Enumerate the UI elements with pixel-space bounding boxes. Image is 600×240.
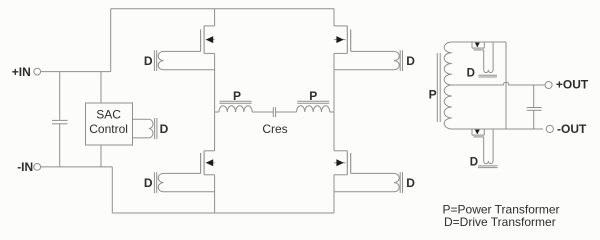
wire right primary stub [330,111,334,113]
legend line D=Drive Transformer [444,215,556,229]
node -IN terminal [34,164,41,171]
wire SR2 drive return drop [492,129,494,161]
wire input cap bottom lead [59,124,61,167]
power transformer left primary winding P [219,106,252,112]
svg-text:Control: Control [89,122,128,136]
node -IN terminal label [17,160,33,174]
wire rectifier output bus [505,42,507,129]
power transformer secondary label P [429,87,437,101]
drive transformer core (Q4) [400,172,402,193]
drive transformer core (Q3) [154,172,156,193]
transistor Q2 [334,26,351,54]
svg-text:D: D [144,54,153,68]
power transformer left primary core [220,101,252,103]
svg-text:+OUT: +OUT [556,78,589,92]
power transformer right primary label P [309,89,317,103]
drive transformer label D (Q2) [406,54,415,68]
svg-text:D: D [160,122,169,136]
wire -IN drop to bottom rail [111,167,113,213]
wire Q1 drive return lead [164,69,215,71]
svg-text:D: D [470,156,478,168]
wire SR1 drive return drop [492,42,494,70]
SAC control box U1 [86,103,133,145]
power transformer right primary winding P [297,106,330,112]
wire center tap to +OUT (hop over bus) [452,82,545,85]
drive transformer winding (SR2) [484,161,493,164]
svg-text:-IN: -IN [17,160,33,174]
wire output cap bottom lead [533,110,535,129]
transistor Q4 [334,151,351,175]
wire secondary bottom lead [452,128,543,130]
svg-text:Cres: Cres [262,122,287,136]
wire +IN horizontal [41,71,111,73]
wire SAC control bottom lead [100,145,102,167]
transistor Q1 [201,26,215,54]
svg-text:D: D [467,67,475,79]
power transformer secondary core [437,53,440,122]
drive transformer winding (SR1) [484,70,493,73]
wire Q4 drive return lead [334,191,394,193]
wire input cap top lead [59,72,61,121]
wire top rail [111,8,334,10]
power transformer secondary winding [444,42,452,129]
svg-text:P: P [429,87,437,101]
wire +IN riser to top rail [110,9,112,72]
power transformer left primary label P [233,89,241,103]
capacitor Cout [527,108,542,111]
drive transformer core (Q2) [400,50,402,71]
transistor SR1 (top rectifier) [472,42,484,50]
drive transformer primary winding (SAC) [149,119,153,138]
drive transformer primary core [155,118,157,139]
wire secondary top lead [452,41,506,43]
wire bottom rail [112,212,334,214]
drive transformer label D (SR1) [467,67,475,79]
svg-text:-OUT: -OUT [557,122,587,136]
wire -IN horizontal [41,166,113,168]
svg-text:+IN: +IN [12,65,31,79]
legend line P=Power Transformer [443,202,560,216]
svg-text:P: P [233,89,241,103]
node -OUT terminal label [557,122,587,136]
wire Cres left lead [252,111,273,113]
wire Q3 source segment [214,175,216,192]
drive transformer winding (Q2) [394,51,399,69]
wire Q2 source segment [333,53,335,69]
node +IN terminal label [12,65,31,79]
wire Q2 gate lead [351,50,394,52]
power transformer right primary core [297,101,329,103]
wire Q3 drive return lead [164,191,215,193]
drive transformer core (SR2) [478,166,498,168]
capacitor Cres [273,107,275,117]
wire right leg middle [333,70,335,151]
wire left leg middle [214,70,216,151]
wire output cap top lead [533,85,535,108]
drive transformer core (SR1) [479,75,498,77]
wire right leg lower [333,192,335,213]
capacitor Cres label [262,122,287,136]
wire left leg lower [214,192,216,213]
transistor SR2 (bottom rectifier) [472,129,484,137]
wire Cres right lead [276,111,297,113]
node +OUT terminal label [556,78,589,92]
node -OUT terminal [546,125,553,132]
wire SR1 gate drop [483,50,485,70]
wire Q4 gate lead [351,172,394,174]
svg-text:D: D [406,54,415,68]
svg-text:D=Drive Transformer: D=Drive Transformer [444,215,556,229]
svg-text:D: D [406,176,415,190]
svg-text:P: P [309,89,317,103]
transistor Q3 [201,151,215,175]
wire SR2 gate drop [483,137,485,161]
drive transformer label D (Q4) [406,176,415,190]
drive transformer winding (Q3) [158,173,163,191]
svg-text:SAC: SAC [96,108,121,122]
wire Q1 gate lead [164,50,201,52]
drive transformer core (Q1) [154,50,156,71]
drive transformer winding (Q1) [158,51,163,69]
wire SAC drive transformer bottom lead [133,137,149,139]
drive transformer label D (SR2) [470,156,478,168]
wire SAC drive transformer top lead [133,118,149,120]
drive transformer primary label D [160,122,169,136]
wire Q2 drive return lead [334,69,394,71]
capacitor Cin [52,120,68,123]
wire left leg upper (Q1 drain) [214,9,216,26]
drive transformer winding (Q4) [394,173,399,191]
wire left primary stub [215,111,219,113]
wire Q4 source segment [333,175,335,192]
drive transformer label D (Q3) [144,176,153,190]
node +IN terminal [34,68,41,75]
svg-text:D: D [144,176,153,190]
wire Q3 gate lead [164,172,201,174]
wire SAC control top lead [100,72,102,103]
drive transformer label D (Q1) [144,54,153,68]
wire right leg upper (Q2 drain) [333,9,335,26]
node +OUT terminal [545,82,552,89]
wire Q1 source segment [214,53,216,69]
